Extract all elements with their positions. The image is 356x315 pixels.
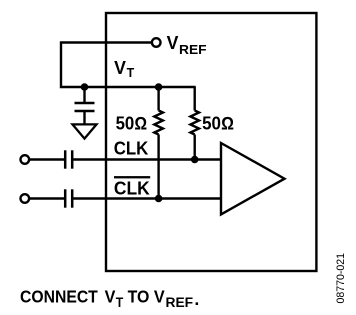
svg-text:T: T: [116, 295, 124, 310]
svg-text:V: V: [167, 33, 179, 53]
coupling capacitor CLKbar: [65, 189, 72, 207]
svg-text:V: V: [105, 286, 116, 306]
svg-text:CONNECT: CONNECT: [20, 286, 98, 306]
svg-text:TO: TO: [128, 286, 150, 306]
svg-text:CLK: CLK: [114, 178, 150, 198]
chip outline (device boundary box): [106, 13, 316, 271]
label VREF: [167, 33, 207, 57]
svg-text:V: V: [114, 58, 126, 78]
capacitor (VT bypass to ground): [75, 87, 95, 124]
ground: [73, 124, 97, 138]
svg-text:V: V: [154, 286, 165, 306]
resistor 50ohm right (VT to CLK): [190, 87, 199, 160]
op-amp buffer (clock receiver): [221, 143, 285, 214]
CLK input terminal circle: [21, 155, 30, 164]
svg-text:CLK: CLK: [114, 138, 149, 158]
node junction dot (right resistor to CLK): [191, 156, 199, 164]
svg-text:.: .: [194, 289, 199, 309]
label VT: [114, 58, 134, 80]
CLKbar input wire: [30, 197, 65, 199]
svg-text:08770-021: 08770-021: [335, 253, 347, 304]
node junction dot (left resistor to CLKbar): [155, 195, 163, 203]
CLKbar input terminal circle: [21, 194, 30, 203]
svg-text:REF: REF: [166, 295, 194, 310]
wire VREF to VT loop: [61, 43, 196, 88]
VREF terminal circle: [152, 38, 161, 47]
svg-text:50Ω: 50Ω: [116, 114, 148, 134]
svg-text:REF: REF: [179, 42, 207, 57]
svg-text:50Ω: 50Ω: [202, 114, 234, 134]
caption CONNECT VT TO VREF.: [20, 286, 199, 310]
wire CLK to buffer: [73, 158, 220, 160]
wire CLKbar to buffer: [73, 197, 220, 199]
svg-text:T: T: [127, 65, 135, 80]
node junction dot (bypass cap tap on VT wire): [81, 83, 89, 91]
coupling capacitor CLK: [65, 150, 72, 168]
node VT junction dot: [155, 83, 163, 91]
label CLKbar with overline: [114, 176, 150, 198]
resistor 50ohm left (VT to CLKbar): [154, 87, 163, 199]
CLK input wire: [30, 158, 65, 160]
